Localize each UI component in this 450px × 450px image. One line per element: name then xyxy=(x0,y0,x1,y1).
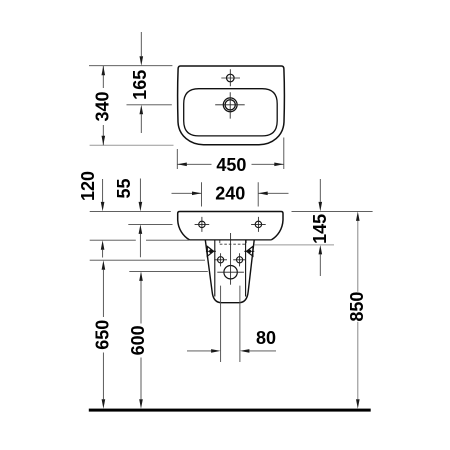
svg-text:600: 600 xyxy=(128,325,148,355)
pedestal inner edge left xyxy=(214,240,216,297)
dimension 240 line xyxy=(172,192,289,194)
washbasin front view rim and bowl profile xyxy=(178,212,283,240)
pedestal hole left xyxy=(218,257,224,263)
dimension 600 line xyxy=(140,281,142,399)
dimension 120 arrows xyxy=(102,179,104,258)
reference line 55 (hole axis) xyxy=(128,223,172,225)
drain crosshair xyxy=(215,92,245,118)
dimension 340 line xyxy=(102,66,104,145)
right clamp symbol xyxy=(244,250,254,252)
rim height extension line left xyxy=(90,210,171,212)
reference line 120 (bowl bottom) xyxy=(90,239,190,241)
dimension 450 line xyxy=(177,163,283,165)
dimension 240 extension lines xyxy=(202,182,259,206)
floor line xyxy=(89,409,371,412)
siphon outlet circle xyxy=(224,266,237,279)
left clamp symbol xyxy=(206,250,216,252)
svg-text:55: 55 xyxy=(114,178,134,198)
faucet hole crosshair xyxy=(221,69,240,86)
svg-text:145: 145 xyxy=(310,214,330,244)
reference line 145 (gray) xyxy=(255,244,335,246)
dimension 145 arrows xyxy=(319,179,321,276)
bowl bottom line (front view) xyxy=(190,239,272,241)
siphon outlet crosshair xyxy=(217,271,244,273)
pedestal inner edge right xyxy=(245,240,247,297)
svg-text:450: 450 xyxy=(216,155,246,175)
extension line rear edge (top view) xyxy=(89,65,172,67)
reference line 600 (siphon axis) xyxy=(129,271,208,273)
extension line drain center xyxy=(127,104,172,106)
pedestal (siphon cover) outline xyxy=(205,240,254,303)
svg-text:120: 120 xyxy=(78,171,98,201)
svg-text:165: 165 xyxy=(130,70,150,100)
dimension 55 arrows xyxy=(139,179,141,258)
svg-text:650: 650 xyxy=(92,320,112,350)
svg-text:80: 80 xyxy=(256,328,276,348)
dimension 165 line xyxy=(140,32,142,133)
dimension 650 line xyxy=(102,270,104,400)
center line xyxy=(230,233,232,285)
drain inner circle xyxy=(225,100,235,110)
faucet hole (top view) xyxy=(227,74,235,82)
reference line 650 (pedestal holes) xyxy=(90,259,205,261)
right mounting hole xyxy=(255,221,261,227)
rim height extension line right xyxy=(292,210,373,212)
dimension 850 line (gray) xyxy=(357,221,359,399)
svg-text:240: 240 xyxy=(215,184,245,204)
washbasin top view inner basin outline xyxy=(184,89,278,136)
svg-text:340: 340 xyxy=(92,91,112,121)
dimension 450 extension lines xyxy=(177,138,283,170)
extension line front edge (top view, gray) xyxy=(90,144,174,146)
svg-text:850: 850 xyxy=(347,292,367,322)
pedestal hole right xyxy=(237,257,243,263)
dimension 80 line xyxy=(187,350,276,352)
washbasin top view outer outline xyxy=(178,66,285,145)
drain outer circle (top view) xyxy=(223,98,237,112)
dashed overflow channel xyxy=(220,241,246,245)
left mounting hole xyxy=(199,221,205,227)
dimension 80 extension lines xyxy=(221,286,240,362)
